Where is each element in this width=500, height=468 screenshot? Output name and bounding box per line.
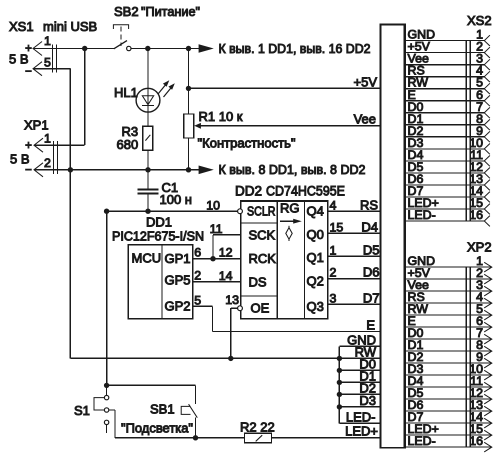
XP1 connector body double line — [53, 141, 55, 174]
junction tie / D3 — [337, 404, 342, 409]
wire Q4 to bus (RS) — [328, 210, 381, 212]
svg-text:SCK: SCK — [249, 228, 276, 243]
switch SB2 (power button) — [113, 25, 128, 29]
svg-text:1: 1 — [44, 34, 51, 48]
resistor R3 — [143, 126, 153, 150]
XP2 pin 2 wire (+5V) — [406, 278, 492, 280]
XP2 pin 5 wire (RW) — [406, 314, 492, 316]
XS1 connector body double line — [52, 45, 54, 73]
XP2 pin 16 wire (LED-) — [406, 446, 492, 448]
svg-text:MCU: MCU — [132, 251, 162, 266]
XS1 pin 1 contact — [33, 42, 42, 56]
svg-text:E: E — [366, 318, 375, 333]
XP2 pin 11 wire (D4) — [406, 386, 492, 388]
wire SCLR node down to S1 — [106, 211, 108, 385]
XP2 pin 11 plug contact — [484, 382, 492, 392]
XP2 pin 16 plug contact — [484, 442, 492, 452]
svg-text:XS1: XS1 — [9, 19, 34, 34]
svg-text:XS2: XS2 — [467, 13, 492, 28]
XP2 pin 12 wire (D5) — [406, 398, 492, 400]
arrow to pin 8 DD1, pin 8 DD2 — [199, 166, 214, 175]
wire GP5 to DS — [193, 281, 241, 283]
wire minus rail vertical — [69, 69, 71, 359]
switch S1 (slide) — [94, 385, 109, 433]
XP2 separator double line — [465, 267, 467, 447]
XS2 pin 5 wire (RW) — [406, 88, 485, 90]
svg-text:1: 1 — [330, 244, 337, 258]
wire D0 to bus — [339, 369, 381, 371]
XS2 pin 12 socket contact — [484, 168, 490, 179]
svg-text:Q3: Q3 — [307, 299, 324, 314]
XS2 pin 3 wire (Vee) — [406, 64, 485, 66]
junction R3 / GND rail — [145, 167, 150, 172]
XP2 pin 2 plug contact — [484, 274, 492, 284]
svg-text:100 н: 100 н — [160, 192, 192, 207]
wire LED- to bus — [339, 422, 381, 424]
wire RW rail to bus — [70, 357, 381, 359]
svg-text:mini USB: mini USB — [43, 19, 97, 34]
XS2 pin 4 wire (RS) — [406, 76, 485, 78]
svg-text:6: 6 — [194, 246, 201, 260]
XS2 pin 16 wire (LED-) — [406, 220, 485, 222]
wire S1 down to LED+ rail — [114, 410, 116, 438]
IC DD2 body — [241, 201, 328, 319]
wire GP2 out — [193, 305, 213, 307]
XP2 pin 10 wire (D3) — [406, 374, 492, 376]
svg-text:Q1: Q1 — [307, 250, 324, 265]
svg-text:−: − — [25, 165, 32, 177]
wire GP1 to RCK — [193, 258, 241, 260]
XP2 pin 8 wire (D1) — [406, 350, 492, 352]
XS2 pin 8 socket contact — [484, 119, 490, 130]
svg-text:PIC12F675-I/SN: PIC12F675-I/SN — [112, 229, 204, 244]
arrow to pin 1 DD1, pin 16 DD2 — [199, 44, 214, 53]
wire XP1 pin1 — [34, 144, 85, 146]
XS2 pin 10 wire (D3) — [406, 148, 485, 150]
wire LED+ rail to bus — [272, 437, 381, 439]
XP1 pin 2 contact — [34, 163, 43, 177]
XS2 pin 1 socket contact — [484, 35, 490, 46]
XS2 pin 6 wire (E) — [406, 100, 485, 102]
wire SB1 bottom lead — [195, 418, 197, 438]
XP2 pin 1 wire (GND) — [406, 266, 492, 268]
XP2 pin 6 plug contact — [484, 322, 492, 332]
wire D3 to bus — [339, 406, 381, 408]
svg-text:+5V: +5V — [354, 75, 378, 90]
XS2 pin 1 wire (GND) — [406, 40, 485, 42]
wire S1 node to SB1 — [107, 384, 196, 386]
XS2 pin 2 wire (+5V) — [406, 52, 485, 54]
XS2 pin 4 socket contact — [484, 71, 490, 82]
wire XP1 pin1 riser to +5V — [84, 49, 86, 146]
XP2 pin 1 plug contact — [484, 262, 492, 272]
XS2 pin 13 wire (D6) — [406, 184, 485, 186]
svg-text:2: 2 — [330, 266, 337, 280]
svg-text:2: 2 — [194, 269, 201, 283]
svg-text:SB1: SB1 — [150, 402, 175, 417]
svg-text:DD1: DD1 — [146, 215, 172, 230]
svg-text:D3: D3 — [359, 393, 376, 408]
wire Q1 to bus (D5) — [328, 255, 381, 257]
wire Q0 to bus (D4) — [328, 232, 381, 234]
svg-text:R1 10 к: R1 10 к — [199, 109, 243, 124]
svg-text:LED-: LED- — [408, 434, 436, 448]
wire XS1 pin5 to minus rail — [33, 68, 70, 70]
XP1 pin 1 contact — [34, 138, 43, 152]
XP2 pin 14 plug contact — [484, 418, 492, 428]
XS2 pin 3 socket contact — [484, 59, 490, 70]
junction +5V rail / HL1 branch — [145, 46, 150, 51]
svg-text:1: 1 — [44, 132, 51, 146]
wire SB2 to +5V arrow — [131, 48, 199, 50]
XP2 pin 5 plug contact — [484, 310, 492, 320]
wire SCK to RCK tie — [212, 235, 214, 259]
svg-text:5: 5 — [194, 293, 201, 307]
svg-text:Q2: Q2 — [307, 274, 324, 289]
svg-text:LED+: LED+ — [345, 423, 378, 438]
wire SCLR line — [107, 210, 238, 212]
svg-text:10: 10 — [206, 199, 220, 213]
svg-text:3: 3 — [330, 291, 337, 305]
svg-text:К выв. 1 DD1, выв. 16 DD2: К выв. 1 DD1, выв. 16 DD2 — [219, 41, 371, 56]
junction tie / D2 — [337, 392, 342, 397]
wire GND rail to C1 — [147, 170, 149, 190]
junction C1 / SCLR line — [145, 209, 150, 214]
svg-text:2: 2 — [44, 156, 51, 170]
svg-text:RG: RG — [280, 201, 300, 216]
wire R3 to GND rail — [147, 150, 149, 169]
svg-text:S1: S1 — [74, 403, 90, 418]
wire C1 to SCLR line — [147, 194, 149, 212]
connector cable group rectangle for XS2/XP2 — [381, 24, 405, 447]
DD2 pin 10 inversion circle — [238, 209, 243, 214]
wire SB1 top lead — [195, 385, 197, 404]
wire +5V to HL1 anode — [147, 49, 149, 89]
capacitor C1 — [138, 188, 159, 190]
svg-text:5 В: 5 В — [9, 52, 29, 67]
junction +5V branch / +5V bus wire — [186, 86, 191, 91]
DD2 three-state diamond symbol — [286, 228, 292, 240]
wire LED+ rail left of R2 — [115, 437, 245, 439]
svg-text:OE: OE — [251, 301, 270, 316]
switch SB1 (backlight button) — [181, 404, 197, 418]
svg-text:D5: D5 — [363, 243, 380, 258]
svg-text:−: − — [25, 66, 32, 78]
svg-text:16: 16 — [469, 208, 483, 222]
wire OE to RW/GND rail — [230, 308, 232, 358]
svg-text:14: 14 — [219, 269, 233, 283]
svg-text:К выв. 8 DD1, выв. 8 DD2: К выв. 8 DD1, выв. 8 DD2 — [219, 162, 366, 177]
XS2 pin 8 wire (D1) — [406, 124, 485, 126]
XS2 pin 10 socket contact — [484, 144, 490, 155]
svg-text:16: 16 — [469, 434, 483, 448]
svg-text:Q0: Q0 — [307, 227, 324, 242]
junction minus rail / GND rail — [68, 167, 73, 172]
svg-text:"Контрастность": "Контрастность" — [198, 136, 296, 151]
potentiometer R1 — [184, 114, 194, 138]
svg-text:4: 4 — [330, 199, 337, 213]
junction S1 / SB1 branch — [104, 383, 109, 388]
svg-text:11: 11 — [210, 222, 223, 236]
XS2 pin 16 socket contact — [484, 216, 490, 227]
XS2 pin 15 socket contact — [484, 204, 490, 215]
svg-text:SB2: SB2 — [114, 4, 139, 19]
svg-text:GP5: GP5 — [165, 272, 191, 287]
XP2 pin 9 plug contact — [484, 358, 492, 368]
wire OE stub (pin 13) — [231, 307, 238, 309]
svg-text:"Питание": "Питание" — [141, 4, 200, 19]
svg-text:CD74HC595E: CD74HC595E — [266, 184, 345, 199]
svg-text:LED-: LED- — [346, 409, 376, 424]
DD2 pin 13 inversion circle — [238, 306, 243, 311]
XP2 pin 13 plug contact — [484, 406, 492, 416]
svg-text:D6: D6 — [363, 265, 380, 280]
wire S1 mid contact stub — [109, 409, 115, 411]
svg-text:Vee: Vee — [354, 112, 376, 127]
junction SCLR line / S1 branch — [104, 209, 109, 214]
XP2 pin 4 wire (RS) — [406, 302, 492, 304]
wire R1 bottom to GND rail — [188, 138, 190, 170]
svg-text:15: 15 — [330, 221, 344, 235]
XP2 pin 10 plug contact — [484, 370, 492, 380]
wire Q2 to bus (D6) — [328, 278, 381, 280]
wire D1 to bus — [339, 381, 381, 383]
svg-text:"Подсветка": "Подсветка" — [121, 421, 193, 436]
svg-text:DD2: DD2 — [235, 184, 262, 199]
wire GP2 down to E — [212, 306, 214, 331]
XS2 pin 12 wire (D5) — [406, 172, 485, 174]
svg-text:D7: D7 — [363, 290, 380, 305]
XS2 pin 7 socket contact — [484, 107, 490, 118]
svg-text:5: 5 — [44, 56, 51, 70]
XP2 pin 3 wire (Vee) — [406, 290, 492, 292]
svg-text:HL1: HL1 — [114, 85, 138, 100]
IC DD1 body — [128, 245, 193, 319]
wire +5V branch to R1 — [188, 49, 190, 115]
junction +5V rail / R1 branch — [186, 46, 191, 51]
XP2 pin 15 wire (LED+) — [406, 434, 492, 436]
svg-text:SCLR: SCLR — [247, 205, 276, 219]
XS2 pin 11 wire (D4) — [406, 160, 485, 162]
svg-text:XP1: XP1 — [24, 118, 49, 133]
XP2 pin 7 plug contact — [484, 334, 492, 344]
junction R1 / GND rail — [186, 167, 191, 172]
XS1 pin 5 contact — [33, 62, 42, 76]
wire Q3 to bus (D7) — [328, 303, 381, 305]
wire GND rail (XP1 pin2) — [34, 169, 199, 171]
XP2 pin 15 plug contact — [484, 430, 492, 440]
wire D2 to bus — [339, 393, 381, 395]
junction tie / D1 — [337, 380, 342, 385]
XP2 pin 4 plug contact — [484, 298, 492, 308]
XS2 pin 11 socket contact — [484, 156, 490, 167]
LED HL1 — [136, 80, 175, 112]
wire grounding tie line — [338, 346, 340, 423]
svg-text:LED-: LED- — [408, 208, 436, 222]
DD2 shift direction arrow — [280, 220, 295, 222]
wire HL1 cathode to R3 — [147, 112, 149, 126]
svg-text:GP1: GP1 — [165, 251, 191, 266]
junction SB1 / LED+ rail — [193, 435, 198, 440]
svg-text:12: 12 — [219, 246, 233, 260]
XS2 pin 2 socket contact — [484, 47, 490, 58]
svg-text:GP2: GP2 — [165, 299, 191, 314]
svg-text:RS: RS — [360, 198, 378, 213]
XS2 pin 15 wire (LED+) — [406, 208, 485, 210]
junction OE / RW rail — [228, 356, 233, 361]
svg-text:D4: D4 — [361, 220, 378, 235]
XP2 pin 3 plug contact — [484, 286, 492, 296]
XS2 pin 14 socket contact — [484, 192, 490, 203]
XS2 pin 7 wire (D0) — [406, 112, 485, 114]
svg-text:R2 22: R2 22 — [240, 420, 275, 435]
wire +5V to connector bus — [189, 87, 381, 89]
XP2 pin 9 wire (D2) — [406, 362, 492, 364]
XP2 pin 14 wire (D7) — [406, 422, 492, 424]
junction tie / D0 — [337, 368, 342, 373]
XS2 pin 6 socket contact — [484, 95, 490, 106]
XS2 pin 9 socket contact — [484, 131, 490, 142]
svg-text:13: 13 — [225, 293, 239, 307]
XP2 pin 7 wire (D0) — [406, 338, 492, 340]
svg-text:680: 680 — [117, 137, 139, 152]
svg-text:Q4: Q4 — [307, 204, 324, 219]
resistor R2 — [245, 433, 272, 442]
XP2 pin 12 plug contact — [484, 394, 492, 404]
svg-text:DS: DS — [249, 275, 267, 290]
wire R1 wiper Vee to connector bus — [201, 125, 381, 127]
svg-text:XP2: XP2 — [467, 240, 492, 255]
XS2 pin 5 socket contact — [484, 83, 490, 94]
XS2 pin 14 wire (D7) — [406, 196, 485, 198]
XP2 pin 13 wire (D6) — [406, 410, 492, 412]
junction SCK tie / RCK wire — [210, 256, 215, 261]
XS2 pin 9 wire (D2) — [406, 136, 485, 138]
XS2 pin 13 socket contact — [484, 180, 490, 191]
svg-text:RCK: RCK — [249, 251, 277, 266]
svg-text:+: + — [25, 140, 32, 152]
junction +5V rail / XP1 pin1 riser — [82, 46, 87, 51]
XP2 pin 6 wire (E) — [406, 326, 492, 328]
XP2 pin 8 plug contact — [484, 346, 492, 356]
wire XS1 pin1 to SB2 — [33, 48, 114, 50]
junction tie / RW rail — [337, 356, 342, 361]
wire E to bus — [213, 331, 381, 333]
wire GND stack to bus — [339, 345, 381, 347]
XS2 separator double line — [465, 41, 467, 221]
wire SCK (pin 11) — [213, 234, 241, 236]
